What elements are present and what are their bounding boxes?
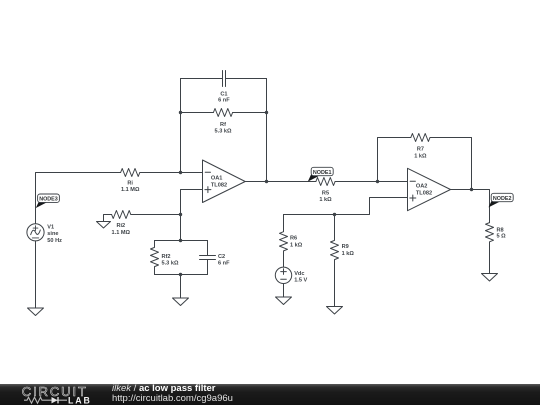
wire R5 to OA2 — [335, 181, 407, 183]
resistor R6 — [280, 215, 288, 268]
svg-text:Ri: Ri — [127, 180, 133, 186]
label R9 — [342, 244, 355, 257]
label R6 — [290, 236, 303, 249]
svg-text:OA2: OA2 — [416, 183, 428, 189]
wire feedback right rail — [266, 79, 268, 182]
resistor R9 — [331, 215, 339, 307]
label Vdc — [294, 271, 307, 284]
svg-text:R9: R9 — [342, 244, 349, 250]
svg-text:R8: R8 — [497, 227, 504, 233]
wire Rf left lead — [181, 112, 214, 114]
node dot R5/OA2 feedback — [376, 180, 379, 183]
resistor Rf2 — [151, 241, 159, 275]
svg-text:50 Hz: 50 Hz — [47, 238, 62, 244]
wire Rf right lead — [233, 112, 267, 114]
ground under Vdc — [276, 297, 292, 305]
wire top C1 right — [226, 78, 267, 80]
node dot Rf right — [265, 111, 268, 114]
svg-text:6 nF: 6 nF — [218, 98, 230, 104]
label Rf2 — [162, 254, 179, 267]
svg-text:1 kΩ: 1 kΩ — [342, 251, 355, 257]
wire Vdc bottom — [283, 284, 285, 298]
junction dots — [179, 111, 473, 276]
svg-text:1 kΩ: 1 kΩ — [290, 243, 303, 249]
wire R7 right rail — [430, 138, 472, 190]
op-amp OA2 — [408, 168, 451, 210]
footer line 1 — [112, 383, 216, 394]
wire OA2 plus input — [284, 198, 408, 215]
svg-text:sine: sine — [47, 231, 58, 237]
svg-text:Rf2: Rf2 — [162, 254, 171, 260]
svg-text:TL082: TL082 — [211, 182, 227, 188]
resistor Ri2 — [112, 211, 131, 219]
resistor Rf — [213, 109, 232, 117]
svg-text:V1: V1 — [47, 224, 54, 230]
svg-text:1.1 MΩ: 1.1 MΩ — [121, 187, 140, 193]
resistor Ri — [121, 169, 140, 177]
svg-text:Ri2: Ri2 — [116, 223, 125, 229]
capacitor C2 — [200, 241, 216, 275]
node dot Rf2C2 top — [179, 239, 182, 242]
svg-text:LAB: LAB — [68, 395, 92, 405]
op-amp OA1 — [203, 160, 246, 203]
resistor R8 — [486, 223, 494, 274]
wire V1 top to Ri — [36, 173, 121, 224]
voltage source V1 — [27, 224, 44, 241]
svg-text:5.3 kΩ: 5.3 kΩ — [162, 261, 179, 267]
ground under V1 — [28, 308, 44, 316]
ground under R8 — [482, 274, 498, 282]
node dot OA2 output — [470, 188, 473, 191]
node dot OA1 minus/feedback — [179, 171, 182, 174]
node flag NODE3 — [36, 194, 60, 208]
wire feedback left rail — [180, 79, 182, 173]
ground under Rf2/C2 — [173, 298, 189, 306]
node dot OA1 output — [265, 180, 268, 183]
node dot Rf2C2 bottom — [179, 273, 182, 276]
logo CIRCUIT LAB — [0, 384, 110, 405]
label OA2 — [416, 183, 432, 196]
svg-text:C2: C2 — [218, 254, 225, 260]
svg-text:NODE3: NODE3 — [39, 197, 58, 203]
wire Ri2 row right — [131, 214, 181, 216]
wire OA1 plus input — [181, 190, 203, 241]
wire Ri2 left bend — [104, 215, 112, 222]
footer bar — [0, 384, 540, 405]
resistor R5 — [316, 178, 335, 186]
wire Rf2 bottom stem — [180, 275, 182, 299]
label C2 — [218, 254, 230, 267]
label R8 — [497, 227, 507, 239]
wire OA2 output — [451, 190, 490, 223]
footer line 2 — [112, 393, 233, 404]
svg-text:1 kΩ: 1 kΩ — [414, 153, 427, 159]
node dot Ri2/plus — [179, 213, 182, 216]
svg-text:5 Ω: 5 Ω — [497, 234, 507, 240]
svg-text:TL082: TL082 — [416, 190, 432, 196]
svg-text:R6: R6 — [290, 236, 297, 242]
capacitor C1 — [223, 71, 226, 87]
svg-text:NODE1: NODE1 — [313, 170, 332, 176]
svg-text:1 kΩ: 1 kΩ — [319, 197, 332, 203]
wire OA1 output to OA2 minus — [245, 181, 316, 183]
voltage source Vdc — [275, 267, 291, 283]
wire V1 bottom — [35, 241, 37, 308]
svg-text:R5: R5 — [322, 190, 329, 196]
svg-text:1.1 MΩ: 1.1 MΩ — [112, 230, 131, 236]
svg-text:R7: R7 — [417, 147, 424, 153]
svg-text:Rf: Rf — [220, 122, 226, 128]
node dot R9 top — [333, 213, 336, 216]
svg-text:OA1: OA1 — [211, 176, 223, 182]
label OA1 — [211, 176, 227, 189]
svg-text:NODE2: NODE2 — [493, 196, 512, 202]
label V1 — [47, 224, 62, 244]
svg-text:5.3 kΩ: 5.3 kΩ — [215, 128, 232, 134]
wire top C1 left — [181, 78, 223, 80]
svg-text:1.5 V: 1.5 V — [294, 278, 307, 284]
node flag NODE2 — [489, 193, 514, 207]
wire Rf2/C2 top rail — [155, 240, 208, 242]
node dot Rf left — [179, 111, 182, 114]
svg-text:Vdc: Vdc — [294, 271, 304, 277]
wire OA2 feedback left rail — [378, 138, 411, 182]
node flag NODE1 — [308, 167, 333, 181]
svg-text:C1: C1 — [220, 91, 227, 97]
ground for Ri2 — [97, 222, 111, 229]
svg-text:6 nF: 6 nF — [218, 261, 230, 267]
resistor R7 — [411, 134, 430, 142]
ground under R9 — [327, 307, 343, 315]
wire Ri to OA1 minus — [140, 172, 203, 174]
wire Rf2/C2 bottom rail — [155, 274, 208, 276]
